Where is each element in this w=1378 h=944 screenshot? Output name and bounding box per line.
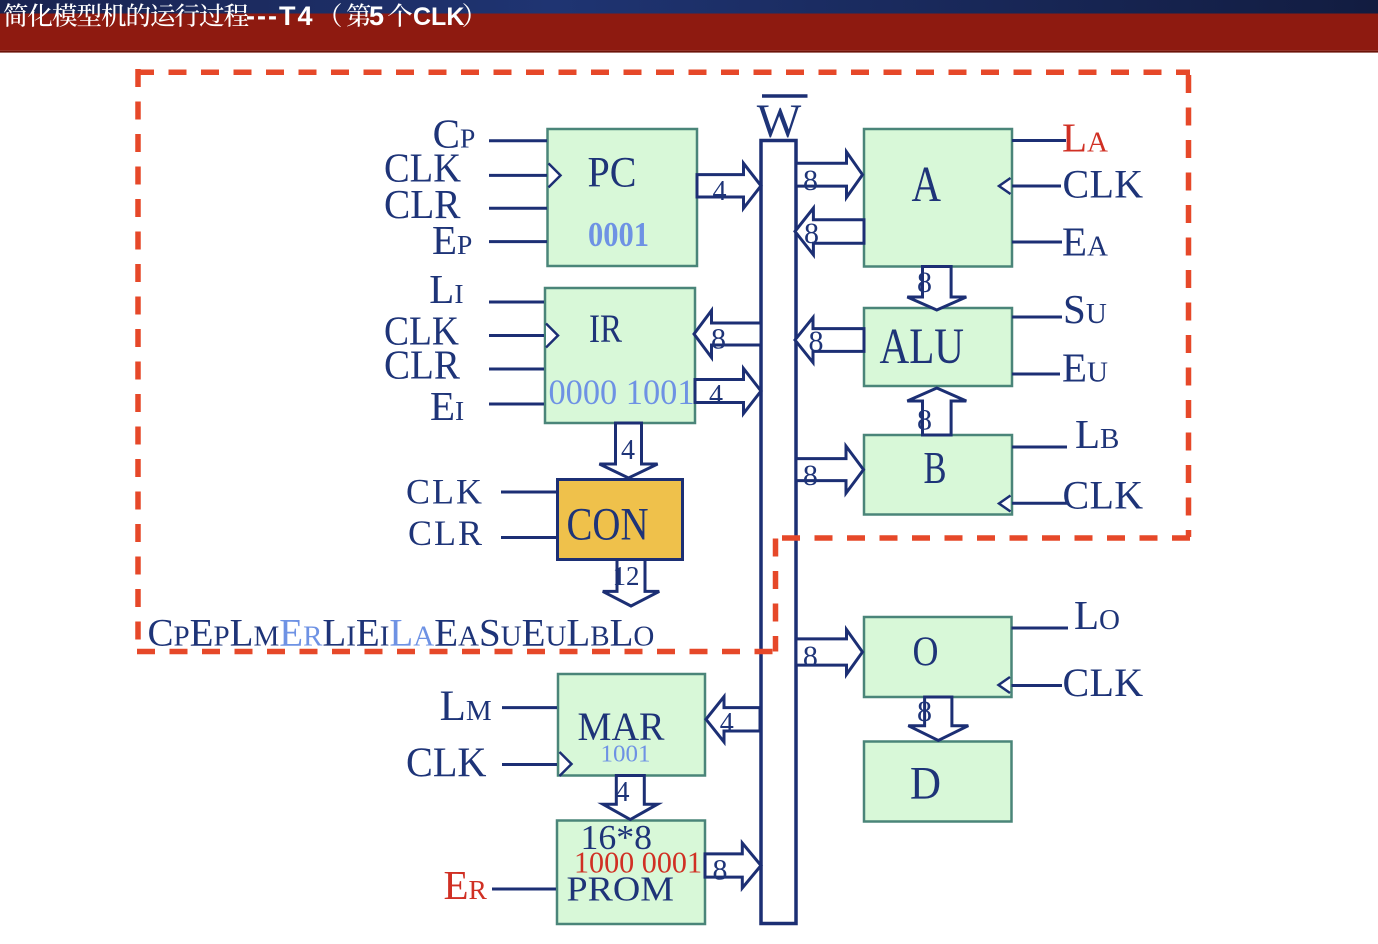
register B (864, 435, 1012, 515)
wire CLR input CON (501, 536, 557, 539)
wire CLR input IR (489, 368, 544, 371)
svg-text:IR: IR (589, 306, 622, 351)
wire CLR input PC (489, 207, 547, 210)
svg-text:W: W (757, 95, 802, 148)
wire SU input (1012, 316, 1062, 319)
clock wedge PC (549, 163, 561, 187)
svg-text:4: 4 (713, 176, 727, 207)
svg-text:8: 8 (917, 404, 932, 437)
dashed boundary box (136, 69, 1190, 652)
clock wedge B (999, 496, 1011, 512)
bus arrow W to O, 8 bits (796, 630, 863, 675)
register MAR (558, 674, 705, 776)
svg-text:SU: SU (1063, 286, 1107, 332)
svg-text:8: 8 (809, 325, 824, 358)
title 简化模型机的运行过程---T4（第5个CLK） (4, 1, 471, 31)
svg-text:EI: EI (430, 383, 464, 429)
bus arrow PC to W, 4 bits (697, 163, 761, 208)
header blue strip (0, 0, 1378, 14)
svg-text:LA: LA (1062, 115, 1108, 161)
clock wedge O (999, 677, 1011, 693)
svg-text:---T4: ---T4 (246, 1, 314, 31)
svg-text:8: 8 (803, 640, 818, 673)
svg-text:CLK: CLK (1063, 660, 1144, 705)
svg-text:PROM: PROM (567, 870, 675, 909)
svg-text:D: D (910, 758, 941, 810)
bus arrow W to MAR, 4 bits (706, 697, 760, 742)
svg-text:A: A (912, 157, 942, 213)
bus arrow W to B, 8 bits (796, 446, 864, 493)
register A (864, 129, 1012, 267)
svg-text:CLK: CLK (406, 472, 484, 512)
memory 16*8 PROM (557, 821, 705, 925)
wire CLK input O (1012, 684, 1063, 687)
wire CP input (489, 139, 547, 142)
svg-text:12: 12 (613, 561, 640, 591)
svg-text:CON: CON (567, 499, 649, 551)
bus arrow PROM to W, 8 bits (705, 843, 761, 888)
wire EU input (1012, 373, 1060, 376)
wire EP input (489, 240, 547, 243)
wire EA input (1012, 241, 1062, 244)
svg-text:8: 8 (917, 695, 932, 728)
clock wedge MAR (560, 752, 572, 776)
display D (864, 742, 1012, 822)
svg-text:ER: ER (444, 862, 488, 908)
svg-text:CLR: CLR (408, 513, 484, 553)
svg-text:CLK: CLK (1063, 473, 1144, 518)
svg-text:0001: 0001 (588, 215, 649, 254)
register O (864, 617, 1012, 697)
arrow B to ALU, 8 bits (907, 388, 966, 435)
svg-text:4: 4 (616, 777, 630, 808)
wire ER input (492, 888, 556, 891)
svg-text:0000 1001: 0000 1001 (549, 372, 695, 412)
arrow IR to CON, 4 bits (599, 423, 657, 478)
svg-text:O: O (913, 630, 939, 676)
clock wedge IR (546, 324, 558, 348)
wire CLK input B (1012, 502, 1068, 505)
svg-text:8: 8 (804, 217, 819, 250)
wire CLK input IR (489, 334, 544, 337)
svg-text:8: 8 (803, 164, 818, 197)
svg-text:8: 8 (711, 323, 726, 356)
svg-text:CLK: CLK (1063, 162, 1144, 207)
wire CLK input MAR (502, 763, 557, 766)
wire LB input (1012, 446, 1067, 449)
svg-text:4: 4 (709, 380, 723, 411)
svg-text:EA: EA (1062, 219, 1108, 265)
bus arrow W to IR, 8 bits (694, 311, 761, 358)
svg-text:PC: PC (588, 150, 637, 197)
svg-text:8: 8 (803, 459, 818, 492)
svg-text:LM: LM (440, 683, 492, 730)
svg-text:CPEPLMERLIEILAEASUEULBLO: CPEPLMERLIEILAEASUEULBLO (148, 612, 655, 655)
arrow O to D, 8 bits (908, 697, 968, 741)
wire LO output (1012, 627, 1069, 630)
arrow CON control word, 12 bits (603, 560, 659, 607)
alu ALU (864, 308, 1012, 386)
svg-text:ALU: ALU (880, 319, 965, 375)
svg-text:LB: LB (1075, 411, 1119, 457)
svg-text:CLK: CLK (406, 741, 487, 787)
svg-text:5: 5 (369, 1, 384, 31)
bus arrow W to A, 8 bits (796, 152, 863, 198)
register PC (548, 129, 698, 266)
svg-text:4: 4 (621, 435, 635, 466)
wire EI input (489, 403, 544, 406)
arrow A to ALU, 8 bits (907, 267, 966, 311)
wire CLK input A (1012, 185, 1061, 188)
svg-text:4: 4 (720, 708, 734, 739)
register IR (545, 288, 695, 423)
svg-text:8: 8 (917, 266, 932, 299)
svg-text:1001: 1001 (601, 742, 651, 768)
svg-text:EU: EU (1062, 345, 1108, 391)
svg-text:EP: EP (432, 217, 472, 263)
wire LA output (1012, 139, 1066, 142)
header red bar (0, 14, 1378, 51)
bus arrow ALU to W, 8 bits (795, 318, 864, 363)
svg-text:CLK: CLK (413, 3, 464, 31)
bus arrow A to W, 8 bits (795, 208, 864, 255)
svg-text:LI: LI (429, 266, 463, 312)
svg-text:B: B (924, 443, 947, 493)
wire LM input (502, 706, 557, 709)
clock wedge A (999, 178, 1011, 194)
svg-text:8: 8 (713, 854, 728, 887)
wire CLK input PC (489, 174, 547, 177)
arrow MAR to PROM, 4 bits (603, 776, 658, 820)
controller CON (558, 480, 683, 560)
svg-text:LO: LO (1074, 592, 1120, 638)
bus W vertical (761, 141, 796, 924)
bus arrow IR to W, 4 bits (695, 369, 761, 414)
svg-text:CLR: CLR (384, 342, 461, 388)
wire CLK input CON (501, 491, 557, 494)
wire LI input (489, 301, 544, 304)
